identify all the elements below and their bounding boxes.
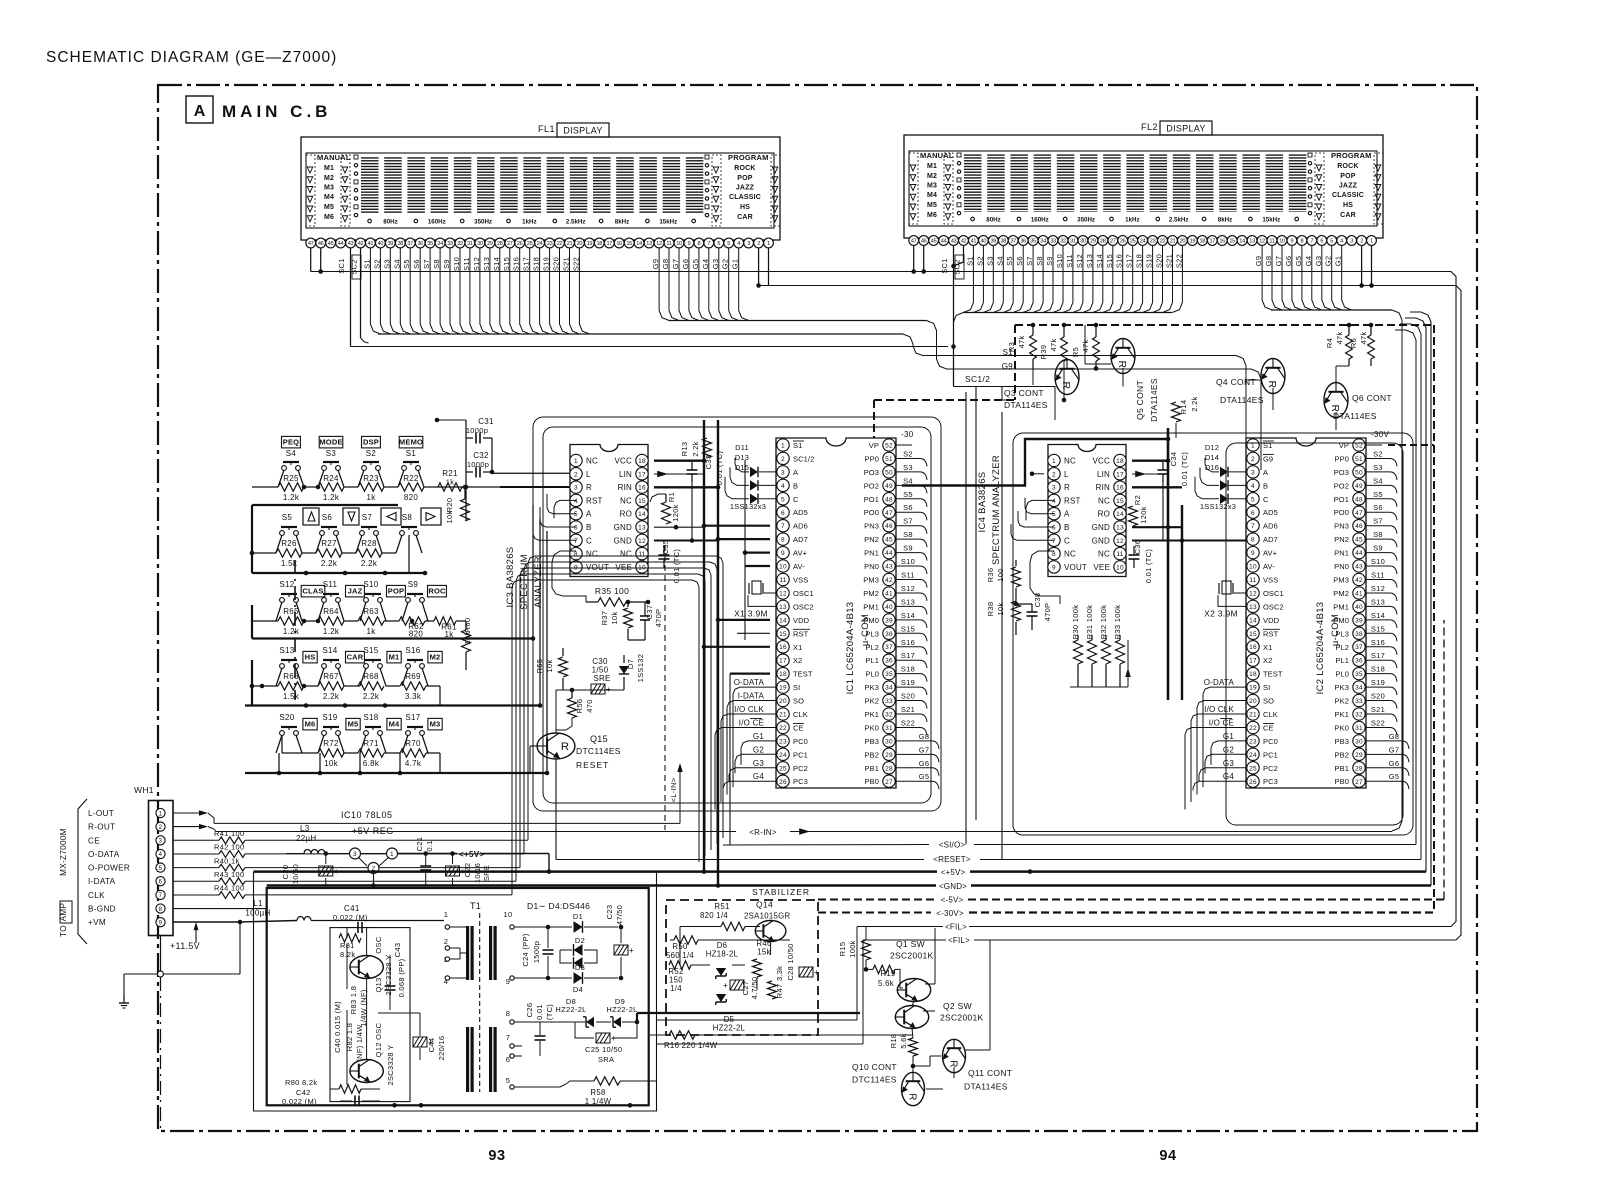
display FL2 segment hatch bars (964, 154, 1306, 212)
svg-text:PEQ: PEQ (283, 438, 299, 447)
svg-text:S5: S5 (282, 513, 293, 522)
svg-text:2: 2 (159, 825, 163, 831)
svg-text:OSC2: OSC2 (1263, 602, 1284, 611)
svg-text:PO0: PO0 (1334, 508, 1349, 517)
svg-text:PC3: PC3 (1263, 777, 1278, 786)
svg-text:7: 7 (781, 523, 785, 530)
svg-text:CLASSIC: CLASSIC (1332, 192, 1364, 199)
svg-text:B: B (1263, 481, 1268, 490)
capacitor C28 (786, 943, 819, 980)
svg-text:S17: S17 (1371, 651, 1385, 660)
labels FL2 SC1 SC2 (940, 255, 964, 279)
svg-text:M5: M5 (927, 202, 937, 209)
IC1 LC65204A-4B13 right pins 52-27 (863, 439, 895, 788)
resistor R35 (586, 586, 650, 606)
svg-text:4: 4 (781, 483, 785, 490)
IC2 LC65204A-4B13 left pins 1-26 (1247, 439, 1284, 788)
svg-text:21: 21 (567, 241, 573, 247)
svg-text:1/4: 1/4 (670, 984, 682, 993)
svg-text:M5: M5 (324, 204, 334, 211)
svg-text:R15: R15 (838, 942, 847, 957)
svg-text:1: 1 (781, 443, 785, 450)
svg-text:SC1: SC1 (337, 258, 346, 274)
svg-text:G8: G8 (919, 732, 930, 741)
display FL2 frequency labels (971, 217, 1299, 224)
svg-text:1: 1 (1370, 239, 1373, 245)
svg-text:S10: S10 (363, 580, 378, 589)
svg-text:R68: R68 (363, 672, 379, 681)
section label A MAIN C.B (186, 96, 331, 123)
resistor R69 (400, 672, 426, 701)
svg-text:20: 20 (577, 241, 583, 247)
svg-text:LIN: LIN (619, 470, 632, 479)
svg-text:3: 3 (574, 485, 578, 492)
switch S11 JAZ (322, 580, 365, 602)
svg-text:M4: M4 (324, 194, 334, 201)
svg-text:6: 6 (1320, 239, 1323, 245)
svg-text:CAR: CAR (347, 653, 364, 662)
label R-IN (749, 828, 810, 837)
resistor R64 (318, 607, 344, 636)
microcomputer IC1 LC65204A-4B13 body (776, 438, 896, 788)
svg-text:19: 19 (1249, 685, 1257, 692)
capacitor C43 (393, 943, 406, 998)
resistor R55 (535, 648, 568, 690)
svg-text:CLK: CLK (88, 891, 105, 900)
wire filament line FL1-FL2 top (311, 246, 1456, 927)
svg-text:PN3: PN3 (1334, 522, 1349, 531)
svg-text:PM3: PM3 (1333, 576, 1349, 585)
svg-text:MAIN C.B: MAIN C.B (222, 102, 331, 121)
svg-text:L1: L1 (253, 899, 263, 908)
svg-text:PL3: PL3 (865, 629, 879, 638)
svg-text:S16: S16 (1371, 638, 1385, 647)
svg-text:52: 52 (1355, 443, 1363, 450)
capacitor C27 (723, 977, 759, 1000)
svg-text:R40 1k: R40 1k (214, 856, 240, 865)
oscillator box (330, 928, 410, 1102)
svg-text:R16 220 1/4W: R16 220 1/4W (664, 1041, 718, 1050)
svg-text:1000p: 1000p (466, 426, 488, 435)
capacitor C41 (333, 904, 378, 933)
svg-text:CLAS: CLAS (302, 587, 323, 596)
capacitor C21 (415, 837, 434, 886)
svg-text:C23: C23 (605, 905, 614, 920)
resistor R60 (462, 618, 473, 652)
svg-text:DTA114ES: DTA114ES (1220, 395, 1264, 405)
label SI/O net (939, 330, 1416, 850)
resistor R15 (838, 927, 871, 970)
svg-text:B: B (586, 523, 592, 532)
svg-text:RO: RO (1098, 510, 1110, 519)
svg-text:GND: GND (1092, 523, 1110, 532)
svg-text:S14: S14 (322, 646, 337, 655)
IC2 LC65204A-4B13 G1-G4 hook labels (1193, 732, 1247, 790)
svg-text:13: 13 (1249, 604, 1257, 611)
display FL2 pin row 47-1 (909, 236, 1377, 246)
svg-text:1.5k: 1.5k (283, 692, 300, 701)
svg-text:<RESET>: <RESET> (933, 855, 971, 864)
svg-text:48: 48 (1355, 496, 1363, 503)
svg-text:SO: SO (1263, 697, 1274, 706)
wire IC4 stubs (1030, 458, 1246, 604)
svg-text:12: 12 (638, 538, 646, 545)
svg-text:O-DATA: O-DATA (734, 678, 765, 687)
display FL2 outer box (904, 135, 1383, 238)
wire FL1 SC1/SC2 drops to SC1/2 net (351, 248, 949, 347)
svg-text:<FIL>: <FIL> (948, 936, 970, 945)
svg-text:DSP: DSP (363, 438, 379, 447)
svg-text:12: 12 (779, 591, 787, 598)
svg-text:5: 5 (1052, 511, 1056, 518)
labels FL1 G9-G1 (651, 259, 740, 270)
svg-text:4: 4 (737, 241, 740, 247)
resistor R13 (680, 438, 712, 458)
resistor R38 (986, 601, 1021, 635)
svg-text:PL1: PL1 (865, 656, 879, 665)
svg-text:R28: R28 (361, 539, 377, 548)
wire bottom right connections (720, 928, 990, 1089)
display FL2 right triangle columns (1315, 153, 1383, 224)
svg-text:9: 9 (159, 921, 163, 927)
svg-text:2.2k: 2.2k (691, 441, 700, 456)
svg-text:160Hz: 160Hz (1031, 217, 1049, 224)
wire +5V rail (254, 869, 938, 874)
svg-text:MANUAL: MANUAL (317, 153, 351, 162)
transistor Q15 (537, 733, 621, 770)
svg-text:1: 1 (390, 851, 394, 858)
svg-text:28: 28 (497, 241, 503, 247)
svg-text:9: 9 (1251, 550, 1255, 557)
svg-text:TEST: TEST (1263, 670, 1283, 679)
svg-text:32: 32 (1355, 712, 1363, 719)
svg-text:S13: S13 (279, 646, 294, 655)
svg-text:9: 9 (1052, 564, 1056, 571)
resistor R46 (753, 939, 772, 977)
wire IC3 RIN stub (654, 485, 720, 490)
svg-text:D14: D14 (1205, 453, 1219, 462)
svg-text:R72: R72 (323, 739, 339, 748)
svg-text:R36: R36 (986, 568, 995, 583)
svg-text:S5: S5 (903, 490, 913, 499)
svg-text:22: 22 (1160, 239, 1166, 245)
resistor R50 (666, 936, 698, 960)
label +5V net (941, 318, 1426, 877)
svg-text:8: 8 (1052, 551, 1056, 558)
svg-text:R: R (1060, 381, 1071, 389)
svg-text:VCC: VCC (615, 457, 633, 466)
wire FL2 S1-S22 bus (953, 246, 1182, 323)
svg-text:1.2k: 1.2k (323, 493, 340, 502)
connector WH1 (134, 785, 173, 936)
svg-text:NC: NC (586, 550, 598, 559)
svg-text:2.5kHz: 2.5kHz (566, 219, 586, 226)
transformer T1 (444, 901, 530, 1092)
svg-text:4: 4 (574, 498, 578, 505)
svg-text:R43 100: R43 100 (214, 870, 244, 879)
svg-text:6: 6 (717, 241, 720, 247)
resistor R47 (768, 966, 785, 999)
svg-text:R60: R60 (463, 618, 472, 633)
svg-text:M3: M3 (324, 185, 334, 192)
svg-text:S6: S6 (903, 503, 913, 512)
svg-text:SC1/2: SC1/2 (793, 454, 814, 463)
svg-text:3: 3 (1350, 239, 1353, 245)
svg-text:B: B (1064, 523, 1070, 532)
label S1 G9 net (1002, 348, 1014, 371)
resistor R68 (358, 672, 384, 701)
capacitor C42 (282, 1088, 380, 1107)
svg-text:30: 30 (477, 241, 483, 247)
svg-text:S20: S20 (279, 713, 294, 722)
svg-text:D11: D11 (735, 443, 749, 452)
svg-text:42: 42 (1355, 577, 1363, 584)
svg-text:S16: S16 (405, 646, 420, 655)
svg-text:10: 10 (504, 910, 513, 919)
svg-text:+VM: +VM (88, 918, 106, 927)
svg-text:TEST: TEST (793, 670, 813, 679)
svg-text:OSC: OSC (374, 936, 383, 953)
transistor Q10 (852, 1062, 925, 1106)
svg-text:37: 37 (885, 644, 893, 651)
switch S12 CLAS (279, 580, 324, 602)
svg-text:1000p: 1000p (467, 460, 489, 469)
svg-text:25: 25 (1130, 239, 1136, 245)
wire switch row1 (252, 470, 437, 489)
svg-text:C40 0.015 (M): C40 0.015 (M) (333, 1001, 342, 1053)
svg-text:32: 32 (1060, 239, 1066, 245)
wire L-IN vertical with arrow (669, 763, 683, 823)
svg-text:1 1/4W: 1 1/4W (585, 1097, 612, 1106)
svg-text:2: 2 (574, 471, 578, 478)
svg-text:51: 51 (885, 456, 893, 463)
resistor R5 (1071, 323, 1099, 371)
diode D7 (619, 654, 645, 690)
svg-text:29: 29 (1090, 239, 1096, 245)
svg-text:<FIL>: <FIL> (945, 923, 967, 932)
svg-text:13: 13 (1116, 525, 1124, 532)
resistor R71 (358, 739, 384, 768)
svg-text:31: 31 (1070, 239, 1076, 245)
svg-text:S19: S19 (901, 678, 915, 687)
resistor R82 (345, 1023, 364, 1062)
svg-text:100k: 100k (848, 940, 857, 957)
svg-text:30: 30 (885, 738, 893, 745)
svg-text:350Hz: 350Hz (474, 219, 492, 226)
svg-text:PL2: PL2 (865, 643, 879, 652)
resistor R51 (680, 902, 760, 931)
svg-text:S1: S1 (406, 449, 417, 458)
svg-text:S21: S21 (1371, 705, 1385, 714)
svg-text:SC1/2: SC1/2 (965, 374, 990, 384)
svg-text:VSS: VSS (793, 576, 808, 585)
svg-text:38: 38 (397, 241, 403, 247)
svg-text:R35 100: R35 100 (595, 586, 629, 596)
wire FL1 S1-S22 bus (370, 248, 1246, 470)
svg-text:13: 13 (646, 241, 652, 247)
svg-text:OSC1: OSC1 (793, 589, 814, 598)
svg-text:C43: C43 (393, 943, 402, 958)
svg-text:G5: G5 (919, 772, 930, 781)
svg-text:5.6k: 5.6k (878, 979, 894, 988)
resistor R22 (398, 474, 424, 502)
IC1 LC65204A-4B13 left pins 1-26 (777, 439, 815, 788)
diode D4 (530, 972, 618, 994)
svg-text:80Hz: 80Hz (383, 219, 397, 226)
svg-text:33: 33 (885, 698, 893, 705)
svg-text:C: C (586, 536, 592, 545)
svg-text:19: 19 (1190, 239, 1196, 245)
svg-text:Q2 SW: Q2 SW (943, 1001, 972, 1011)
resistor R37 (600, 600, 633, 640)
label D1-D4 DS446 (527, 901, 590, 911)
svg-text:S17: S17 (405, 713, 420, 722)
svg-text:37: 37 (1355, 644, 1363, 651)
svg-text:-30: -30 (901, 430, 914, 439)
capacitor C25 (575, 1022, 637, 1064)
svg-text:HZ22-2L: HZ22-2L (713, 1024, 746, 1033)
svg-text:POP: POP (1340, 173, 1356, 180)
svg-text:10k: 10k (324, 759, 338, 768)
svg-text:SPECTRUM ANALYZER: SPECTRUM ANALYZER (991, 455, 1002, 565)
svg-text:9: 9 (1290, 239, 1293, 245)
svg-text:R4: R4 (1325, 338, 1334, 348)
svg-text:CAR: CAR (1340, 212, 1356, 219)
svg-text:10k: 10k (545, 660, 554, 673)
svg-text:PC1: PC1 (793, 750, 808, 759)
svg-text:470: 470 (585, 699, 594, 712)
svg-text:I-DATA: I-DATA (88, 877, 116, 886)
svg-text:16: 16 (1249, 644, 1257, 651)
svg-text:41: 41 (1355, 591, 1363, 598)
svg-text:1.2k: 1.2k (323, 627, 340, 636)
svg-text:28: 28 (885, 765, 893, 772)
svg-text:S11: S11 (1371, 571, 1385, 580)
svg-text:16: 16 (779, 644, 787, 651)
IC2 LC65204A-4B13 G8-G5 hook labels (1365, 732, 1409, 789)
svg-text:43: 43 (348, 241, 354, 247)
svg-text:47: 47 (911, 239, 917, 245)
svg-text:1: 1 (1052, 458, 1056, 465)
svg-text:R: R (1064, 483, 1070, 492)
resistor R41 (173, 829, 245, 844)
svg-text:IC1 LC65204A-4B13: IC1 LC65204A-4B13 (845, 602, 856, 695)
page number 94 (1159, 1148, 1176, 1164)
svg-text:S12: S12 (279, 580, 294, 589)
svg-text:45: 45 (885, 537, 893, 544)
svg-text:PK0: PK0 (865, 724, 879, 733)
svg-text:35: 35 (1030, 239, 1036, 245)
svg-text:2.2k: 2.2k (323, 692, 340, 701)
svg-text:MODE: MODE (319, 438, 342, 447)
svg-text:8: 8 (574, 551, 578, 558)
svg-text:16: 16 (1116, 485, 1124, 492)
svg-text:PO1: PO1 (1334, 495, 1349, 504)
svg-text:29: 29 (1355, 752, 1363, 759)
svg-text:I/O CLK: I/O CLK (1204, 705, 1234, 714)
svg-text:R47 3.3k: R47 3.3k (775, 966, 784, 998)
svg-text:17: 17 (1249, 658, 1257, 665)
IC4 BA3826S left pins 1-9 (1048, 454, 1087, 573)
svg-text:RESET: RESET (576, 760, 609, 770)
svg-text:24: 24 (779, 752, 787, 759)
svg-text:PB1: PB1 (1335, 764, 1349, 773)
resistors R30 R31 R32 R33 (1070, 605, 1131, 687)
svg-text:M2: M2 (430, 653, 441, 662)
svg-text:14: 14 (779, 617, 787, 624)
svg-text:VEE: VEE (1093, 563, 1110, 572)
wire switch row5 bus (245, 735, 530, 775)
svg-text:<-5V>: <-5V> (941, 896, 964, 905)
svg-text:D13: D13 (735, 453, 749, 462)
svg-text:-30V: -30V (1371, 430, 1389, 439)
svg-text:14: 14 (1116, 511, 1124, 518)
svg-text:R20: R20 (445, 498, 454, 513)
svg-text:10: 10 (1249, 564, 1257, 571)
svg-text:S22: S22 (1371, 719, 1385, 728)
svg-text:B: B (793, 481, 798, 490)
svg-text:G2: G2 (753, 745, 764, 754)
svg-text:30: 30 (1355, 738, 1363, 745)
resistor R26 (276, 539, 302, 568)
transistor Q1 (890, 939, 934, 1002)
svg-text:G9: G9 (1263, 454, 1273, 463)
svg-text:0.022 (M): 0.022 (M) (282, 1097, 317, 1106)
svg-text:AD7: AD7 (1263, 535, 1278, 544)
switch S9 ROC (406, 580, 447, 602)
svg-text:S6: S6 (322, 513, 333, 522)
svg-text:ROCK: ROCK (1337, 163, 1358, 170)
svg-text:DTA114ES: DTA114ES (1149, 378, 1159, 422)
svg-text:PB2: PB2 (1335, 750, 1349, 759)
svg-text:1SS132x3: 1SS132x3 (1200, 502, 1236, 511)
svg-text:S13: S13 (1371, 597, 1385, 606)
svg-text:2.2k: 2.2k (361, 559, 378, 568)
svg-text:C42: C42 (296, 1088, 311, 1097)
svg-text:34: 34 (1040, 239, 1046, 245)
svg-text:VP: VP (1339, 441, 1349, 450)
svg-text:0.01 (TC): 0.01 (TC) (672, 549, 681, 584)
svg-text:NC: NC (1064, 457, 1076, 466)
labels WH1 pin names (88, 809, 130, 927)
svg-text:8: 8 (1300, 239, 1303, 245)
svg-text:C31: C31 (478, 417, 494, 426)
resistor R6 (1349, 323, 1374, 366)
svg-text:52: 52 (885, 443, 893, 450)
svg-text:46: 46 (885, 523, 893, 530)
svg-text:R22: R22 (403, 474, 419, 483)
svg-text:AV+: AV+ (793, 549, 808, 558)
svg-text:VP: VP (869, 441, 879, 450)
svg-text:31: 31 (1355, 725, 1363, 732)
IC1 LC65204A-4B13 G8-G5 hook labels (895, 732, 939, 789)
svg-text:2.2k: 2.2k (363, 692, 380, 701)
stabilizer box (666, 887, 818, 1035)
svg-text:0.01: 0.01 (535, 1004, 544, 1020)
svg-text:D1: D1 (573, 912, 583, 921)
inductor L1 (245, 899, 444, 921)
svg-text:Q11 CONT: Q11 CONT (968, 1068, 1012, 1078)
svg-text:S15: S15 (1371, 624, 1385, 633)
switch S15 M1 (363, 646, 401, 668)
resistor R52 (668, 961, 691, 993)
switch S16 M2 (405, 646, 442, 668)
svg-text:S5: S5 (1373, 490, 1383, 499)
svg-text:C27: C27 (741, 981, 750, 996)
svg-text:S17: S17 (901, 651, 915, 660)
svg-text:S21: S21 (901, 705, 915, 714)
svg-text:20: 20 (1249, 698, 1257, 705)
